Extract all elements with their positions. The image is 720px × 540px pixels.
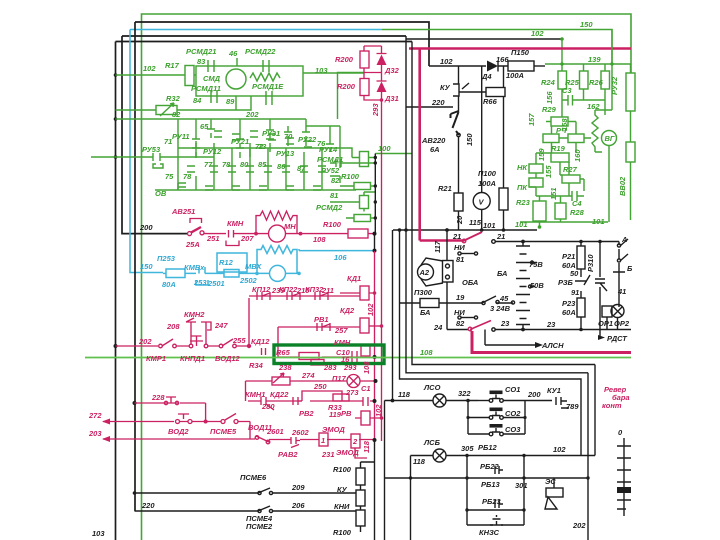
wire r23g links xyxy=(536,196,569,227)
svg-text:КМН2: КМН2 xyxy=(184,310,205,319)
svg-text:РБ23: РБ23 xyxy=(482,497,501,506)
contact RU21 xyxy=(236,134,244,158)
svg-text:С4: С4 xyxy=(572,199,582,208)
fuse P300 xyxy=(400,302,421,304)
svg-text:102: 102 xyxy=(143,64,156,73)
svg-text:R12: R12 xyxy=(219,258,234,267)
relay KD1 xyxy=(360,286,369,300)
wire black bus 375 upper xyxy=(374,154,376,234)
wire bus 399 xyxy=(400,230,582,456)
button KNPD1 KMN2 xyxy=(189,344,193,348)
wire green riser to R200 xyxy=(338,73,365,120)
svg-text:108: 108 xyxy=(362,361,371,374)
arrow 272 xyxy=(103,421,174,423)
svg-text:80: 80 xyxy=(240,160,249,169)
svg-text:РСМД1: РСМД1 xyxy=(317,155,343,164)
svg-text:108: 108 xyxy=(420,348,433,357)
node 139 xyxy=(560,62,563,65)
svg-text:274: 274 xyxy=(301,371,315,380)
contact RU22 xyxy=(302,126,310,146)
wire grid rail mid xyxy=(178,119,340,190)
node 23 xyxy=(521,328,525,332)
svg-text:ОР2: ОР2 xyxy=(614,319,630,328)
resistor KNI xyxy=(356,510,365,526)
svg-text:2502: 2502 xyxy=(239,276,258,285)
button SO1 xyxy=(478,400,489,402)
contact PSME4 xyxy=(258,506,272,511)
svg-text:75В: 75В xyxy=(529,260,543,269)
svg-text:ВГ: ВГ xyxy=(605,134,615,143)
svg-text:2501: 2501 xyxy=(207,279,225,288)
contact OBA xyxy=(482,296,513,303)
svg-text:КМВх: КМВх xyxy=(184,263,205,272)
wire vv02 down xyxy=(630,162,632,220)
node staircase xyxy=(398,228,402,232)
capacitor 89 xyxy=(266,91,272,105)
wire 82-202 line xyxy=(116,96,307,126)
svg-text:МН: МН xyxy=(284,222,296,231)
wire kp line xyxy=(249,295,360,297)
wire bus230 xyxy=(393,229,537,231)
contact KP22 xyxy=(287,292,300,300)
svg-text:231: 231 xyxy=(321,450,335,459)
diode D32 xyxy=(377,46,387,73)
svg-text:КНИ: КНИ xyxy=(334,502,350,511)
svg-text:R200: R200 xyxy=(335,55,354,64)
wire green 100 line xyxy=(375,153,412,155)
svg-text:151: 151 xyxy=(549,187,558,200)
lamp P17 xyxy=(347,375,360,388)
contact NI top xyxy=(461,253,474,255)
button VOD11 xyxy=(256,436,269,442)
svg-text:208: 208 xyxy=(166,322,180,331)
drum controller xyxy=(617,438,631,516)
resistor mn loop zigzag xyxy=(256,211,297,234)
svg-text:82: 82 xyxy=(172,110,181,119)
svg-text:БА: БА xyxy=(497,269,507,278)
fuse P150 xyxy=(508,61,534,71)
svg-text:6А: 6А xyxy=(430,145,440,154)
voltmeter V xyxy=(473,193,490,210)
contact 280 xyxy=(266,401,274,410)
svg-text:220: 220 xyxy=(141,501,155,510)
svg-text:ВОД2: ВОД2 xyxy=(168,427,189,436)
wire RV1 line xyxy=(278,327,360,344)
capacitor RSMD22 xyxy=(263,60,269,72)
svg-text:РВ: РВ xyxy=(341,409,352,418)
wire es link xyxy=(553,478,555,482)
svg-text:166: 166 xyxy=(496,55,509,64)
svg-text:117: 117 xyxy=(433,240,442,253)
wire rsmd2a leads xyxy=(330,192,375,212)
svg-text:РСМД22: РСМД22 xyxy=(245,47,276,56)
svg-text:139: 139 xyxy=(588,55,601,64)
svg-text:160: 160 xyxy=(573,149,582,162)
wire v riser xyxy=(481,66,483,230)
wire mvh line xyxy=(217,272,299,274)
fuse R23 column xyxy=(580,291,582,298)
frame SMD block xyxy=(196,66,303,96)
svg-text:102: 102 xyxy=(553,445,566,454)
svg-text:118: 118 xyxy=(398,390,411,399)
button 228 xyxy=(163,394,179,403)
wire kmn1 line xyxy=(248,400,375,402)
svg-text:С1: С1 xyxy=(361,384,371,393)
capacitor C4 xyxy=(569,191,584,201)
svg-text:П300: П300 xyxy=(414,288,433,297)
svg-text:НК: НК xyxy=(517,163,528,172)
wire lsb row xyxy=(411,456,596,540)
wire bright green long line xyxy=(85,357,631,359)
svg-text:П17: П17 xyxy=(332,374,347,383)
svg-text:ПСМЕ6: ПСМЕ6 xyxy=(240,473,267,482)
capacitor R310 xyxy=(595,279,607,291)
svg-text:ПСМЕ2: ПСМЕ2 xyxy=(246,522,273,531)
svg-text:R100: R100 xyxy=(323,220,342,229)
capacitor RSMD11 xyxy=(211,91,217,103)
svg-text:РЗБ: РЗБ xyxy=(558,278,574,287)
svg-text:R34: R34 xyxy=(249,361,264,370)
contact 23 crimson xyxy=(470,321,491,330)
svg-text:103: 103 xyxy=(315,66,328,75)
resistor R26 xyxy=(601,71,610,89)
svg-text:конт: конт xyxy=(602,401,622,410)
svg-text:КМН: КМН xyxy=(334,338,351,347)
svg-text:КНЗС: КНЗС xyxy=(479,528,500,537)
button SO3 xyxy=(489,432,493,436)
wire bus 393 xyxy=(392,230,394,401)
svg-text:19: 19 xyxy=(456,293,465,302)
svg-text:65: 65 xyxy=(200,122,209,131)
button SO2 xyxy=(489,416,493,420)
svg-text:200: 200 xyxy=(139,223,153,232)
svg-text:283: 283 xyxy=(323,363,337,372)
wire ru32 xyxy=(612,64,631,142)
svg-text:24: 24 xyxy=(433,323,443,332)
svg-text:253: 253 xyxy=(193,278,207,287)
svg-text:202: 202 xyxy=(245,110,259,119)
svg-text:23: 23 xyxy=(546,320,556,329)
contact RZB xyxy=(575,275,590,285)
svg-text:КМР1: КМР1 xyxy=(146,354,166,363)
svg-text:РБ12: РБ12 xyxy=(478,443,497,452)
svg-text:155: 155 xyxy=(544,165,553,178)
resistor R100 bottom xyxy=(356,468,365,485)
svg-text:115: 115 xyxy=(469,218,482,227)
svg-text:КМН1: КМН1 xyxy=(245,390,265,399)
svg-text:301: 301 xyxy=(515,481,528,490)
svg-text:С3: С3 xyxy=(562,86,572,95)
wire crimson vertical 374 xyxy=(374,251,376,441)
wire kd2 link xyxy=(369,325,382,327)
svg-text:21: 21 xyxy=(496,232,505,241)
motor MVh xyxy=(270,265,286,281)
lamp LSO xyxy=(433,394,446,407)
svg-text:118: 118 xyxy=(362,440,371,453)
node mn end xyxy=(373,232,377,236)
highlight box xyxy=(274,345,384,364)
svg-text:2: 2 xyxy=(352,437,358,446)
wire rsmd1 leads xyxy=(340,148,375,158)
generator VG xyxy=(602,131,617,146)
wire 139 line xyxy=(545,29,612,71)
node bus375 xyxy=(374,156,377,220)
svg-text:21: 21 xyxy=(452,232,461,241)
svg-text:РУ12: РУ12 xyxy=(203,147,222,156)
svg-text:206: 206 xyxy=(291,501,305,510)
svg-text:РВ1: РВ1 xyxy=(314,315,329,324)
motor MN xyxy=(269,225,286,242)
svg-text:R19: R19 xyxy=(551,144,566,153)
wire kd1 link xyxy=(340,292,375,294)
wire black 102 line xyxy=(406,38,562,40)
svg-text:R26: R26 xyxy=(589,78,604,87)
arrow 203 line xyxy=(103,438,255,440)
wire r19 row xyxy=(552,138,592,153)
wire 272b xyxy=(192,421,221,423)
node dots left bus xyxy=(114,73,137,495)
svg-text:70: 70 xyxy=(284,132,293,141)
svg-text:789: 789 xyxy=(566,402,579,411)
contact KD22 xyxy=(293,397,302,405)
wire crimson long vertical bus xyxy=(381,100,383,441)
wire black vertical 374 xyxy=(374,234,376,251)
svg-text:R66: R66 xyxy=(483,97,498,106)
box OR1 xyxy=(602,306,612,317)
svg-text:АВ251: АВ251 xyxy=(171,207,195,216)
resistor R200 a xyxy=(360,51,369,68)
svg-text:280: 280 xyxy=(261,402,275,411)
svg-text:202: 202 xyxy=(138,337,152,346)
svg-text:РУ11: РУ11 xyxy=(172,132,190,141)
wire green 102 drop xyxy=(561,39,563,64)
svg-text:82: 82 xyxy=(456,319,465,328)
svg-text:272: 272 xyxy=(88,411,102,420)
wire cyan top bus xyxy=(130,29,382,31)
svg-text:87: 87 xyxy=(297,164,306,173)
wire lso row xyxy=(385,400,479,402)
relay RV coil xyxy=(361,411,370,425)
svg-text:ЛСО: ЛСО xyxy=(423,383,441,392)
svg-text:20: 20 xyxy=(455,215,464,225)
svg-text:КУ: КУ xyxy=(337,485,348,494)
wire inside line xyxy=(278,346,361,357)
diode D4 xyxy=(487,61,498,72)
wire crimson drop xyxy=(418,49,421,241)
svg-text:БА: БА xyxy=(420,308,430,317)
svg-text:78: 78 xyxy=(183,172,192,181)
svg-text:Д32: Д32 xyxy=(384,66,400,75)
capacitor C10 xyxy=(343,351,357,363)
contact row 77-87 ticks xyxy=(210,166,326,172)
resistor R21 xyxy=(454,193,463,211)
contact RB22 xyxy=(495,466,503,474)
contact KMN xyxy=(204,230,242,246)
capacitor C1 xyxy=(363,397,368,406)
svg-text:89: 89 xyxy=(226,97,235,106)
wire mn line xyxy=(242,233,375,235)
svg-text:ОВ: ОВ xyxy=(155,189,167,198)
wire cyan 106 line xyxy=(299,249,375,251)
svg-text:91: 91 xyxy=(571,288,579,297)
motor SMD xyxy=(226,69,246,89)
wire crimson bold bottom xyxy=(472,331,631,353)
box EMOD2 xyxy=(351,434,360,448)
lead 46 xyxy=(236,58,238,66)
wire crimson top xyxy=(409,47,631,50)
resistor R66 xyxy=(486,88,505,97)
button KNZS xyxy=(490,515,503,525)
svg-text:150: 150 xyxy=(140,262,153,271)
contact RU52 xyxy=(330,159,375,176)
contact VOD12 xyxy=(222,339,233,346)
wire battery leads xyxy=(522,242,524,330)
contact rv1 xyxy=(317,323,330,331)
svg-text:РБ13: РБ13 xyxy=(481,480,500,489)
contact KMN1 xyxy=(261,397,269,405)
svg-text:R100: R100 xyxy=(333,465,352,474)
node c1 xyxy=(373,399,377,403)
svg-text:101: 101 xyxy=(515,220,528,229)
svg-text:25А: 25А xyxy=(185,240,200,249)
contact 2602 xyxy=(291,437,300,448)
svg-text:R32: R32 xyxy=(166,94,181,103)
svg-text:305: 305 xyxy=(461,444,474,453)
resistor RSMD2b xyxy=(354,215,371,222)
wire kni link xyxy=(361,441,375,540)
wire 65 drop xyxy=(207,119,215,138)
wire 24 line xyxy=(447,329,600,331)
wire black top bus 2 xyxy=(122,35,406,37)
svg-text:101: 101 xyxy=(483,221,496,230)
svg-text:РДСТ: РДСТ xyxy=(607,334,628,343)
svg-text:КМН: КМН xyxy=(227,219,244,228)
svg-text:293: 293 xyxy=(371,103,380,117)
wire 228 line xyxy=(135,403,206,422)
svg-text:СМД: СМД xyxy=(203,74,221,83)
svg-text:ЭМОД: ЭМОД xyxy=(322,425,345,434)
svg-text:СО1: СО1 xyxy=(505,385,520,394)
svg-text:247: 247 xyxy=(214,321,228,330)
wire bottom network left rail xyxy=(384,401,386,540)
wire left vertical black 114 xyxy=(115,42,117,540)
wire bus 406 xyxy=(406,36,588,373)
svg-text:108: 108 xyxy=(313,235,326,244)
svg-text:СО2: СО2 xyxy=(505,409,521,418)
svg-text:84: 84 xyxy=(193,96,202,105)
coil NK xyxy=(529,164,543,173)
wire rch row xyxy=(546,122,576,139)
wire green bottom rail xyxy=(520,221,608,223)
svg-text:ЛСБ: ЛСБ xyxy=(423,438,441,447)
fuse P253 xyxy=(163,272,166,274)
svg-text:ВОД12: ВОД12 xyxy=(215,354,241,363)
svg-text:РУ32: РУ32 xyxy=(610,76,619,95)
box EMOD1 xyxy=(319,433,328,446)
coil VV02 xyxy=(626,142,635,162)
wire r200 top xyxy=(364,46,382,100)
node kd12 xyxy=(247,344,251,348)
svg-text:П253: П253 xyxy=(157,254,176,263)
wire c3 row xyxy=(562,89,605,100)
svg-text:ЭС: ЭС xyxy=(545,477,556,486)
svg-text:3 24В: 3 24В xyxy=(490,304,511,313)
svg-text:83: 83 xyxy=(197,57,206,66)
svg-text:ВВ02: ВВ02 xyxy=(618,176,627,196)
wire r66 row xyxy=(459,91,487,93)
svg-text:100: 100 xyxy=(378,144,391,153)
wire psme4 line xyxy=(135,510,357,512)
contact PSME5 xyxy=(221,420,225,424)
lamp OR xyxy=(611,305,624,318)
svg-text:86: 86 xyxy=(277,162,286,171)
svg-text:106: 106 xyxy=(334,253,347,262)
bell ES xyxy=(546,488,563,497)
svg-text:1: 1 xyxy=(321,436,325,445)
wire R310 column xyxy=(599,242,601,330)
node bus230 xyxy=(404,228,505,232)
svg-text:П150: П150 xyxy=(511,48,530,57)
svg-text:77: 77 xyxy=(204,160,213,169)
svg-text:R27: R27 xyxy=(563,165,578,174)
generator VG zigzag xyxy=(592,64,612,152)
contact RU53 xyxy=(147,153,166,168)
svg-text:102: 102 xyxy=(366,303,375,316)
svg-text:118: 118 xyxy=(413,457,426,466)
svg-text:203: 203 xyxy=(88,429,102,438)
diode D31 xyxy=(377,73,387,101)
svg-text:Р310: Р310 xyxy=(586,254,595,272)
resistor R24 xyxy=(558,71,567,89)
svg-text:102: 102 xyxy=(531,29,544,38)
svg-text:РУ53: РУ53 xyxy=(142,145,161,154)
resistor R28 xyxy=(555,203,566,219)
wire r34 line xyxy=(246,381,375,401)
svg-text:РУ21: РУ21 xyxy=(231,137,249,146)
contact KU xyxy=(453,83,469,96)
wire so2 row xyxy=(468,401,525,435)
wire 21 line black part xyxy=(495,241,619,243)
wire 202 line xyxy=(116,298,250,346)
contact KU1 xyxy=(525,397,569,408)
node box xyxy=(373,355,377,359)
resistor R65 xyxy=(299,353,319,360)
breaker AV220 xyxy=(451,111,460,135)
wire rv link xyxy=(355,417,382,419)
wire r29 col xyxy=(562,100,605,117)
svg-text:100А: 100А xyxy=(478,179,496,188)
svg-text:322: 322 xyxy=(458,389,471,398)
relay RCh a xyxy=(543,134,559,143)
wire RDST arrow xyxy=(598,330,600,338)
svg-text:РУ31: РУ31 xyxy=(262,129,280,138)
resistor R23g xyxy=(533,201,546,221)
relay RCh b xyxy=(568,134,584,143)
svg-text:Р21: Р21 xyxy=(562,252,575,261)
wire grid extra ticks xyxy=(178,131,321,190)
svg-text:КД1: КД1 xyxy=(347,274,361,283)
svg-text:АЛСН: АЛСН xyxy=(541,341,564,350)
wire r66 riser xyxy=(503,66,505,188)
block KMN2 xyxy=(186,318,211,346)
wire ku vertical 458 xyxy=(458,66,460,230)
svg-text:85: 85 xyxy=(258,160,267,169)
svg-text:238: 238 xyxy=(278,363,292,372)
wire right rails xyxy=(588,365,595,456)
svg-text:R200: R200 xyxy=(337,82,356,91)
svg-text:75: 75 xyxy=(165,172,174,181)
contact PSME6 xyxy=(258,488,272,493)
